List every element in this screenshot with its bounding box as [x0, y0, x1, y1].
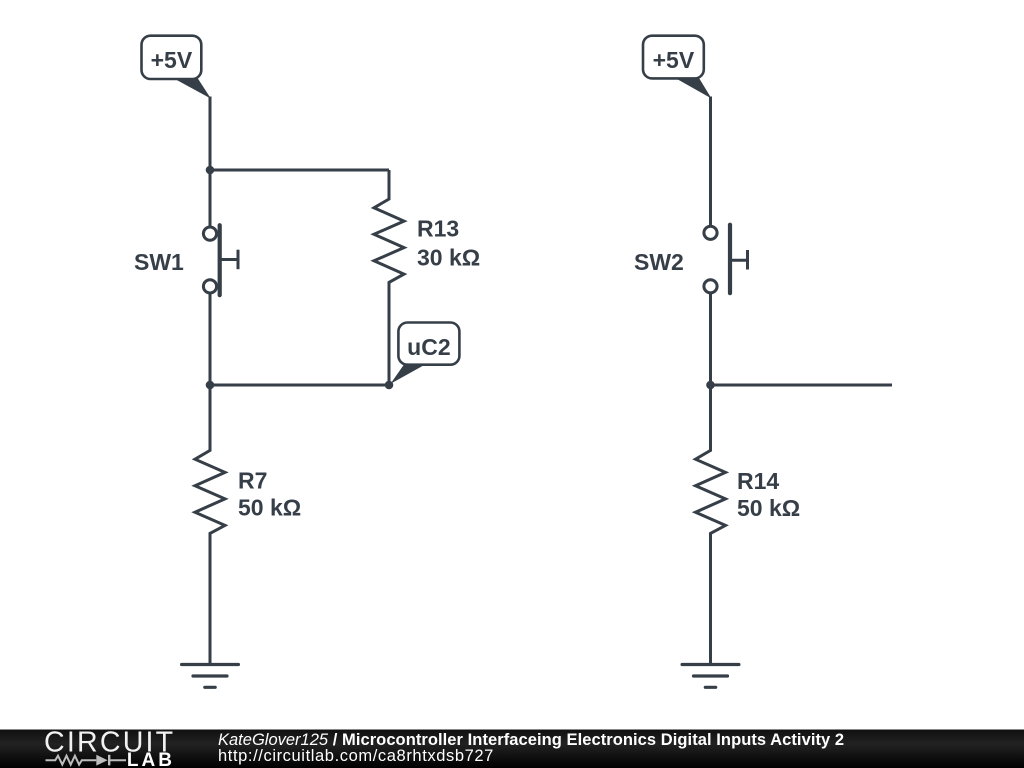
- wire SW1 bottom terminal to node B: [209, 294, 212, 385]
- svg-text:R7: R7: [238, 468, 267, 494]
- resistor R14 (with leads): [696, 385, 726, 665]
- svg-text:LAB: LAB: [127, 750, 175, 768]
- wire SW2 bottom terminal to node D: [709, 294, 712, 385]
- footer bar: [0, 730, 1024, 768]
- svg-text:+5V: +5V: [151, 47, 193, 73]
- svg-text:http://circuitlab.com/ca8rhtxd: http://circuitlab.com/ca8rhtxdsb727: [218, 747, 494, 765]
- node D junction dot (right): [706, 381, 715, 390]
- ground symbol (right): [682, 665, 739, 688]
- svg-text:50 kΩ: 50 kΩ: [238, 495, 301, 521]
- wire node B to node C: [210, 384, 389, 387]
- resistor R7 (with leads): [195, 385, 225, 665]
- svg-text:SW1: SW1: [134, 249, 184, 275]
- svg-text:SW2: SW2: [634, 249, 684, 275]
- switch SW1 (pushbutton): [203, 225, 238, 295]
- svg-text:50 kΩ: 50 kΩ: [737, 495, 800, 521]
- resistor R13 (with leads): [374, 170, 404, 385]
- power flag +5V (left): [142, 36, 211, 99]
- svg-text:R13: R13: [417, 216, 459, 242]
- wire node A to SW1 top terminal: [209, 170, 212, 226]
- node C junction dot (under R13): [385, 381, 394, 390]
- wire from +5V to node A (left): [209, 97, 212, 171]
- CircuitLab logo resistor-diode squiggle: [46, 755, 127, 766]
- node B junction dot (left mid): [206, 381, 215, 390]
- node A junction dot (left top): [206, 166, 215, 175]
- power flag +5V (right): [643, 36, 712, 99]
- wire from +5V to SW2 top terminal (right): [709, 97, 712, 226]
- svg-text:+5V: +5V: [653, 47, 695, 73]
- wire node A to R13 top: [210, 169, 389, 172]
- net label uC2: [391, 323, 460, 384]
- svg-text:uC2: uC2: [407, 334, 450, 360]
- switch SW2 (pushbutton): [704, 225, 748, 294]
- wire node D to the right (open net): [711, 384, 893, 387]
- ground symbol (left): [182, 665, 239, 688]
- svg-text:R14: R14: [737, 468, 779, 494]
- svg-text:30 kΩ: 30 kΩ: [417, 245, 480, 271]
